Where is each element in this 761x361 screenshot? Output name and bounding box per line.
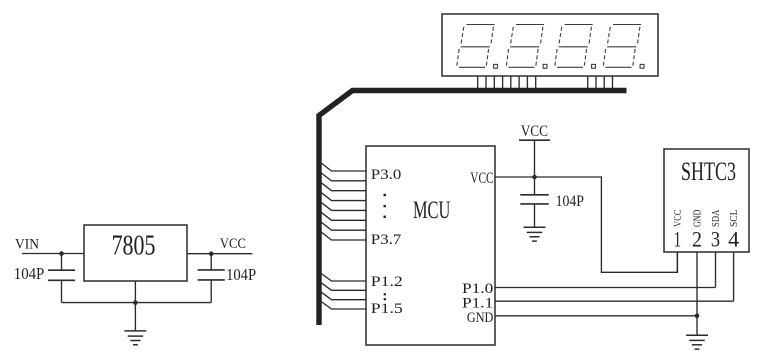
- SHTC3 pin 2 stub down to ground junction: [696, 252, 698, 335]
- svg-text:P3.0: P3.0: [371, 167, 402, 183]
- thick bus wire from display to MCU port pins: [319, 91, 627, 326]
- wire MCU VCC pin to SHTC3 pin 1 (VCC net): [495, 177, 677, 272]
- svg-text:1: 1: [674, 226, 682, 251]
- ellipsis dots between P1.2 and P1.5: [384, 293, 386, 300]
- wire bus to MCU pin P1.2: [321, 273, 367, 281]
- SHTC3 sensor U2 body: [664, 149, 749, 252]
- wire MCU P1.1 to SHTC3 SCL: [495, 300, 734, 302]
- wire bus to MCU pin P1.3: [321, 282, 367, 290]
- wire bus to MCU pin P3.4: [321, 202, 367, 211]
- display DS1 pins (right group of 4): [588, 76, 613, 89]
- capacitor C3 (decoupling): [520, 177, 548, 227]
- display DS1 digit 4 (7-segment "8."): [603, 25, 644, 69]
- SHTC3 pin 4 stub: [733, 252, 735, 301]
- wire bus to MCU pin P3.1: [321, 172, 367, 181]
- svg-text:3: 3: [711, 226, 720, 251]
- ground for C3: [524, 227, 546, 241]
- SHTC3 pin 1 stub: [676, 252, 678, 272]
- display DS1 digit 3 (7-segment "8."): [555, 25, 596, 69]
- wire MCU P1.0 to SHTC3 SDA: [495, 287, 716, 289]
- node: output junction at C2: [209, 251, 214, 256]
- wire VIN to 7805 input: [22, 253, 84, 255]
- svg-text:SDA: SDA: [711, 209, 722, 227]
- capacitor C1 input filter: [48, 254, 75, 303]
- node: junction of ground stem and bottom wire: [133, 300, 138, 305]
- svg-text:2: 2: [692, 226, 702, 251]
- wire bus to MCU pin P3.7: [321, 232, 367, 241]
- wire bus to MCU pin P3.0: [321, 163, 367, 172]
- svg-text:SHTC3: SHTC3: [681, 157, 736, 186]
- svg-text:VCC: VCC: [521, 123, 548, 140]
- node: VCC net junction at decoupling cap: [532, 175, 537, 180]
- node: GND junction below SHTC3: [695, 314, 700, 319]
- svg-text:SCL: SCL: [729, 210, 740, 227]
- svg-text:104P: 104P: [226, 265, 256, 284]
- svg-text:VCC: VCC: [673, 210, 684, 227]
- display DS1 pins (left group of 8): [478, 76, 536, 89]
- wire bus to MCU pin P3.5: [321, 212, 367, 221]
- wire joining C1 and C2 bottoms: [62, 302, 212, 304]
- ground below SHTC3: [686, 335, 708, 349]
- svg-text:104P: 104P: [556, 193, 584, 210]
- svg-text:P3.7: P3.7: [371, 232, 402, 248]
- wire bus to MCU pin P1.5: [321, 301, 367, 309]
- svg-text:GND: GND: [693, 209, 704, 227]
- svg-text:104P: 104P: [14, 264, 45, 283]
- ground for 7805: [124, 331, 146, 345]
- MCU U1 body: [366, 146, 495, 345]
- svg-text:GND: GND: [467, 310, 494, 326]
- capacitor C2 output filter: [198, 254, 225, 303]
- wire bus to MCU pin P3.2: [321, 182, 367, 191]
- wire bus to MCU pin P3.6: [321, 222, 367, 231]
- svg-text:7805: 7805: [112, 229, 156, 261]
- svg-text:VCC: VCC: [470, 170, 493, 187]
- ellipsis dots between P3.0 and P3.7: [384, 194, 386, 218]
- VCC power symbol (bar): [519, 140, 550, 177]
- svg-text:P1.2: P1.2: [371, 274, 403, 290]
- svg-text:VIN: VIN: [15, 236, 39, 252]
- svg-text:P1.5: P1.5: [371, 301, 403, 317]
- node: VIN junction at C1: [59, 251, 64, 256]
- svg-text:MCU: MCU: [413, 197, 450, 224]
- display DS1 digit 2 (7-segment "8."): [506, 25, 547, 69]
- wire bus to MCU pin P3.3: [321, 192, 367, 201]
- svg-text:VCC: VCC: [220, 236, 246, 252]
- svg-text:4: 4: [728, 226, 739, 251]
- SHTC3 pin 3 stub: [715, 252, 717, 288]
- display DS1 digit 1 (7-segment "8."): [457, 25, 498, 69]
- voltage regulator U3 7805 body: [84, 225, 187, 281]
- wire 7805 GND pin down to ground: [134, 281, 136, 331]
- 4-digit 7-segment display DS1 body: [442, 14, 658, 76]
- wire bus to MCU pin P1.4: [321, 292, 367, 300]
- wire MCU GND to SHTC3 GND: [495, 315, 697, 317]
- wire 7805 output to VCC: [187, 253, 252, 255]
